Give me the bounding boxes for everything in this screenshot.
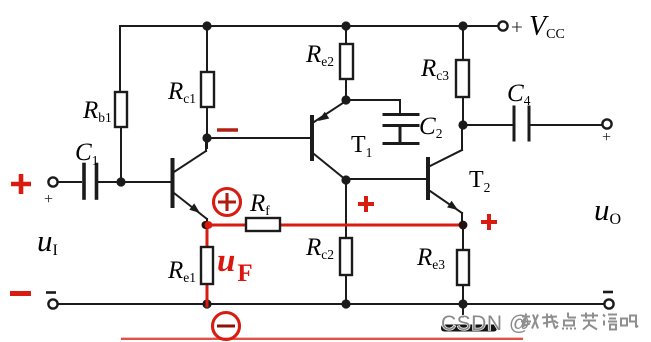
wire Rc2 to bottom rail (345, 275, 347, 304)
svg-text:+: + (511, 15, 523, 39)
watermark CJK glyphs (drawn) (521, 313, 638, 330)
resistor Re1 (201, 247, 213, 284)
red underline (highlight) at bottom (121, 338, 523, 340)
char ying (581, 313, 598, 330)
terminal input (bottom) (48, 299, 57, 308)
symbol red circled minus (below rail) (213, 313, 240, 340)
wire T1 collector node to T2 base (346, 178, 426, 180)
label minus overbar at bottom input terminal (46, 291, 56, 294)
symbol red input plus (11, 174, 31, 194)
wire rail to Rc1 (206, 26, 208, 72)
node T2 emitter (459, 221, 468, 230)
wire C1 to node (98, 181, 121, 183)
node Q1 collector (202, 133, 211, 142)
wire red: down through Re1 (206, 225, 209, 247)
wire left branch upper (rail to Rb1) (119, 26, 121, 92)
wire top VCC rail (120, 25, 498, 27)
node Q1 emitter (red) (202, 221, 210, 229)
node T1 emitter / Re2 / C2 (341, 95, 350, 104)
wire red: Rf to T2 emitter node (280, 224, 463, 227)
wire bottom rail (58, 303, 604, 305)
wire T2 emitter node to Re3 (462, 228, 464, 250)
capacitor C2 (384, 115, 418, 144)
terminal +Vcc (498, 21, 507, 30)
wire stub below Re3 node (video artifact) (462, 304, 464, 318)
wire Re3 to bottom rail (462, 285, 464, 304)
node bottom rail x207 (202, 299, 211, 308)
capacitor C4 (514, 107, 529, 140)
wire C4 to output terminal (531, 124, 602, 126)
wire T1 emitter node to C2 (346, 100, 400, 113)
char wo (542, 314, 558, 329)
watermark CSDN (441, 304, 531, 335)
wire input terminal to C1 (58, 181, 81, 183)
symbol red plus at T2 base column (358, 196, 374, 212)
wire red: Q1 emitter node to Rf (207, 224, 246, 227)
terminal output (bottom) (604, 299, 613, 308)
node rail x463 (458, 21, 467, 30)
capacitor C1 (84, 165, 97, 199)
wire Q1 collector node to T1 base (207, 137, 310, 139)
char yu (603, 315, 617, 330)
node bottom rail x463 (458, 299, 467, 308)
symbol red input minus (10, 291, 31, 296)
red feedback network (207, 225, 463, 306)
node T1 collector / T2 base (341, 175, 350, 184)
node top rail / Rc1 (202, 21, 211, 30)
label minus overbar at bottom output terminal (603, 291, 613, 294)
resistor Rc1 (201, 72, 214, 107)
node bottom rail x346 (341, 299, 350, 308)
node rail x346 (341, 21, 350, 30)
wire Rb1 to input node (120, 127, 122, 182)
wire node down to Rc2 (345, 180, 347, 238)
transistor T2 (NPN) (428, 125, 462, 225)
wire rail to Rc3 (462, 26, 464, 60)
resistor Re2 (340, 44, 353, 79)
node input junction (116, 177, 125, 186)
wire Rc1 to collector node (206, 107, 208, 148)
svg-text:CSDN @: CSDN @ (441, 312, 531, 335)
char ba (621, 316, 638, 328)
transistor Q1 (first stage, unlabeled) (173, 138, 208, 225)
resistor Rc3 (456, 60, 469, 97)
resistor Rc2 (340, 238, 352, 275)
char jiao (521, 314, 538, 329)
terminal output (top) (602, 119, 611, 128)
symbol red circled plus (feedback sense) (214, 189, 241, 216)
wire node to C4 (463, 124, 512, 126)
svg-text:+: + (602, 129, 611, 146)
wire rail to Re2 (345, 26, 347, 44)
resistor Re3 (457, 250, 469, 285)
transistor T1 (PNP) (312, 101, 346, 180)
node T2 collector / C4 (458, 120, 467, 129)
wire node to Q1 base (121, 181, 171, 183)
wire node to Re2 (345, 79, 347, 100)
terminal input (top) (48, 177, 57, 186)
symbol red minus at T1 base wire (217, 128, 238, 132)
wire Rc3 to T2 collector node (462, 97, 464, 125)
resistor Rf (246, 218, 280, 231)
symbol red plus at T2 emitter node (481, 214, 497, 230)
svg-text:+: + (44, 191, 53, 208)
char dian (563, 313, 576, 330)
resistor Rb1 (115, 92, 127, 127)
